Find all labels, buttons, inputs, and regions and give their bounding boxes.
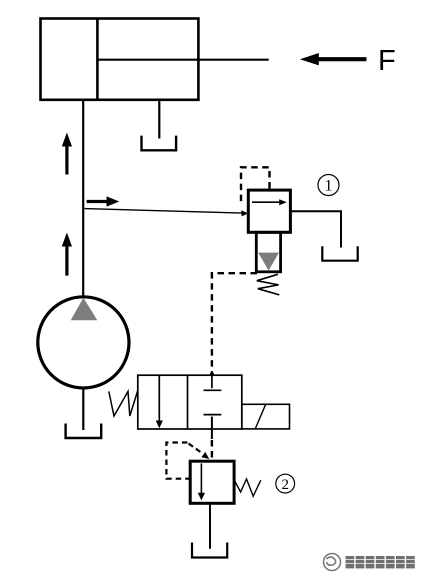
valve 1 internal arrow	[252, 199, 287, 205]
solenoid valve spring	[109, 390, 138, 416]
flow arrow up A2	[62, 233, 72, 276]
wire: cylinder to tank T1	[158, 100, 160, 139]
solenoid valve divider	[187, 375, 189, 429]
solenoid valve blocked port top	[204, 375, 222, 390]
tank T2	[66, 424, 102, 439]
solenoid valve left cell arrow	[156, 376, 163, 429]
svg-text:1: 1	[325, 178, 333, 195]
tank T3	[322, 246, 357, 260]
label 2	[276, 474, 295, 493]
pilot dashed wire: valve 1 to solenoid valve	[212, 273, 257, 373]
valve 2 internal arrow	[198, 464, 205, 501]
svg-text:2: 2	[281, 477, 289, 493]
cylinder rod (wire to F)	[97, 59, 268, 61]
valve 2 pilot diagonal arrow	[189, 444, 210, 460]
cylinder body	[41, 19, 199, 100]
wire: pump to cylinder	[82, 100, 84, 298]
valve 1 outlet wire to tank	[290, 211, 341, 247]
tank T4	[192, 543, 227, 558]
wire: valve 2 to tank T4	[209, 503, 211, 549]
valve 1 spring	[257, 274, 280, 295]
pump P1	[38, 297, 129, 388]
flow arrow up A1	[62, 133, 72, 175]
valve 2 spring	[234, 479, 261, 496]
wire: pump to tank T2	[82, 388, 84, 430]
solenoid valve blocked port bottom	[204, 415, 222, 439]
valve 1 poppet housing	[256, 232, 280, 271]
flow arrow right A3	[87, 196, 120, 206]
solenoid valve body	[138, 375, 242, 429]
solenoid S1	[242, 404, 290, 429]
tank T1	[142, 136, 177, 151]
pump triangle	[71, 298, 98, 321]
watermark text	[346, 556, 415, 568]
force arrow F	[300, 53, 367, 65]
pilot dashed wire: solenoid valve to valve 2	[211, 440, 213, 461]
throttle valve 2 body	[190, 461, 234, 503]
valve 2 pilot dashed C loop	[166, 443, 189, 479]
svg-text:F: F	[378, 45, 396, 77]
valve 1 poppet triangle	[258, 253, 279, 271]
cylinder piston	[96, 19, 99, 100]
valve 1 pilot dashed loop	[241, 167, 270, 205]
label 1	[318, 175, 339, 196]
watermark glyph gaps	[346, 559, 415, 563]
junction dot	[210, 372, 214, 376]
sequence valve 1 body	[248, 190, 290, 232]
watermark logo	[324, 554, 341, 571]
pilot wire: main line to valve 1	[85, 209, 249, 217]
